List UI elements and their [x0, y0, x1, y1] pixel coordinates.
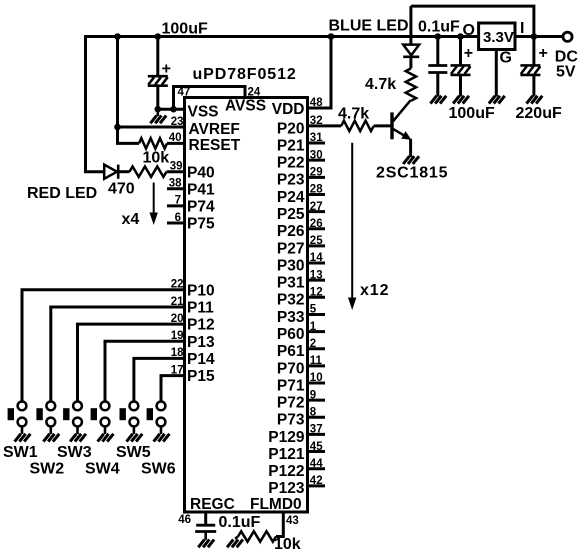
- svg-text:0.1uF: 0.1uF: [219, 514, 261, 531]
- svg-text:P32: P32: [277, 292, 305, 309]
- svg-text:19: 19: [171, 330, 184, 342]
- svg-text:30: 30: [310, 149, 323, 161]
- svg-text:28: 28: [310, 184, 323, 196]
- svg-text:SW4: SW4: [85, 461, 120, 478]
- svg-text:8: 8: [310, 406, 317, 418]
- svg-text:37: 37: [310, 424, 323, 436]
- svg-text:P21: P21: [277, 137, 305, 154]
- svg-text:2SC1815: 2SC1815: [376, 164, 448, 181]
- svg-text:P11: P11: [187, 300, 214, 317]
- svg-text:FLMD0: FLMD0: [250, 496, 302, 513]
- svg-text:O: O: [463, 22, 475, 39]
- svg-text:G: G: [500, 50, 512, 67]
- svg-text:27: 27: [310, 201, 323, 213]
- svg-text:P41: P41: [187, 181, 215, 198]
- svg-text:17: 17: [171, 364, 184, 376]
- svg-text:10k: 10k: [274, 536, 301, 553]
- svg-text:uPD78F0512: uPD78F0512: [193, 66, 297, 83]
- svg-text:5V: 5V: [556, 63, 576, 80]
- svg-text:44: 44: [310, 458, 323, 470]
- svg-text:18: 18: [171, 347, 184, 359]
- svg-text:REGC: REGC: [190, 496, 235, 513]
- svg-text:21: 21: [171, 296, 184, 308]
- svg-text:P73: P73: [277, 412, 305, 429]
- svg-text:6: 6: [175, 212, 181, 224]
- svg-text:SW6: SW6: [141, 461, 176, 478]
- svg-text:2: 2: [310, 338, 316, 350]
- svg-text:10k: 10k: [143, 149, 170, 166]
- svg-text:BLUE LED: BLUE LED: [329, 18, 409, 35]
- svg-text:P30: P30: [277, 257, 305, 274]
- svg-text:42: 42: [310, 475, 323, 487]
- svg-text:P10: P10: [187, 282, 215, 299]
- svg-text:P33: P33: [277, 309, 305, 326]
- svg-text:P71: P71: [277, 377, 305, 394]
- svg-text:P27: P27: [277, 240, 305, 257]
- svg-text:AVSS: AVSS: [225, 98, 266, 115]
- svg-text:+: +: [464, 45, 473, 62]
- svg-text:+: +: [162, 61, 171, 78]
- svg-text:10: 10: [310, 372, 323, 384]
- svg-text:40: 40: [169, 132, 182, 144]
- svg-text:P74: P74: [187, 199, 215, 216]
- svg-text:P12: P12: [187, 317, 215, 334]
- svg-text:P60: P60: [277, 326, 305, 343]
- svg-text:32: 32: [310, 115, 323, 127]
- svg-text:VSS: VSS: [188, 104, 219, 121]
- svg-text:x4: x4: [122, 211, 140, 228]
- svg-text:P26: P26: [277, 223, 305, 240]
- svg-text:P25: P25: [277, 206, 305, 223]
- svg-text:x12: x12: [360, 282, 389, 299]
- svg-text:26: 26: [310, 218, 323, 230]
- svg-text:I: I: [520, 20, 524, 37]
- svg-text:23: 23: [171, 116, 184, 128]
- svg-text:22: 22: [171, 279, 184, 291]
- svg-text:220uF: 220uF: [516, 105, 562, 122]
- svg-text:+: +: [539, 45, 548, 62]
- svg-text:39: 39: [170, 161, 183, 173]
- svg-text:20: 20: [171, 313, 184, 325]
- svg-text:SW1: SW1: [3, 444, 38, 461]
- svg-text:VDD: VDD: [272, 101, 305, 118]
- svg-text:9: 9: [310, 389, 316, 401]
- svg-text:SW2: SW2: [30, 461, 65, 478]
- svg-text:P22: P22: [277, 155, 305, 172]
- svg-text:SW5: SW5: [116, 444, 151, 461]
- svg-text:P61: P61: [277, 343, 305, 360]
- svg-text:470: 470: [108, 181, 135, 198]
- svg-text:P121: P121: [268, 446, 305, 463]
- svg-text:7: 7: [175, 195, 181, 207]
- svg-text:14: 14: [310, 252, 323, 264]
- svg-text:P129: P129: [268, 429, 305, 446]
- svg-text:100uF: 100uF: [162, 21, 208, 38]
- svg-text:4.7k: 4.7k: [365, 76, 396, 93]
- svg-text:5: 5: [310, 304, 317, 316]
- svg-text:4.7k: 4.7k: [338, 105, 369, 122]
- svg-text:P14: P14: [187, 351, 215, 368]
- svg-text:P72: P72: [277, 395, 305, 412]
- svg-text:P75: P75: [187, 216, 215, 233]
- svg-text:46: 46: [178, 514, 191, 526]
- svg-text:100uF: 100uF: [449, 105, 495, 122]
- svg-text:11: 11: [310, 355, 323, 367]
- svg-text:P13: P13: [187, 334, 215, 351]
- svg-text:13: 13: [310, 269, 323, 281]
- svg-text:P15: P15: [187, 368, 215, 385]
- svg-text:0.1uF: 0.1uF: [418, 19, 460, 36]
- svg-text:P70: P70: [277, 360, 305, 377]
- svg-text:31: 31: [310, 132, 323, 144]
- svg-text:RED LED: RED LED: [27, 185, 97, 202]
- svg-text:P40: P40: [187, 164, 215, 181]
- svg-text:P24: P24: [277, 189, 305, 206]
- svg-text:12: 12: [310, 287, 323, 299]
- svg-text:RESET: RESET: [189, 137, 241, 154]
- svg-text:P122: P122: [268, 463, 304, 480]
- svg-text:38: 38: [169, 178, 182, 190]
- svg-text:P123: P123: [268, 480, 305, 497]
- svg-text:1: 1: [310, 321, 317, 333]
- svg-text:P20: P20: [277, 120, 305, 137]
- svg-text:48: 48: [310, 97, 323, 109]
- svg-text:SW3: SW3: [57, 444, 92, 461]
- svg-text:P31: P31: [277, 275, 305, 292]
- svg-text:AVREF: AVREF: [189, 121, 240, 138]
- svg-text:45: 45: [310, 441, 323, 453]
- svg-text:47: 47: [178, 86, 191, 98]
- svg-text:43: 43: [286, 515, 299, 527]
- svg-text:25: 25: [310, 235, 323, 247]
- svg-text:29: 29: [310, 167, 323, 179]
- svg-text:P23: P23: [277, 172, 305, 189]
- svg-text:3.3V: 3.3V: [483, 29, 514, 46]
- svg-text:24: 24: [248, 86, 261, 98]
